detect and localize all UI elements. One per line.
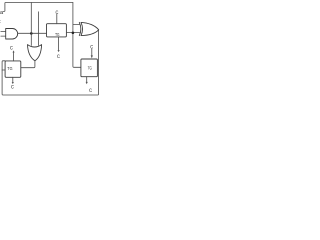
wire vertical x=38.2 to OR U2 right input	[37, 12, 39, 46]
wire vertical x=31.3 from top rail through junction J1 to OR U2 left input	[30, 3, 32, 46]
svg-text:c: c	[57, 54, 60, 60]
wire right rail down, bottom rail across, left rail up to TG2 top corner	[2, 30, 99, 95]
svg-text:c: c	[0, 19, 2, 25]
wire AND U1 lower input	[1, 35, 6, 37]
node J2 junction dot on TG1 output	[72, 32, 75, 35]
op-amp U1 (AND gate)	[6, 29, 18, 40]
wire TG2 bottom clock stub	[12, 77, 14, 82]
inverter mark on TG1 bottom clock	[58, 50, 60, 52]
wire TG1 bottom clock stub	[58, 37, 60, 50]
wire TG3 bottom clock stub	[86, 77, 88, 82]
wire AND U1 upper input	[1, 31, 6, 33]
node c label below TG1	[57, 54, 60, 60]
node c label below TG2	[11, 85, 14, 91]
svg-text:TG: TG	[88, 66, 92, 72]
wire top feedback rail from node a up and across	[3, 3, 73, 12]
inverter mark on TG2 bottom clock	[12, 82, 14, 84]
svg-text:TG: TG	[7, 66, 12, 72]
node J1 junction dot on AND output	[30, 32, 33, 35]
wire branch into XOR U3 upper input	[73, 23, 80, 25]
svg-text:a: a	[0, 10, 4, 16]
xor-gate U3 (pointing right)	[79, 22, 98, 35]
wire right vertical x=72.9 from top rail down to TG3 input	[73, 3, 81, 68]
inverter mark on TG2 top clock	[13, 50, 15, 52]
or-gate U2 (pointing down)	[28, 45, 42, 61]
wire AND U1 output to TG1 input	[18, 32, 47, 34]
transmission gate TG2 (bottom left box)	[5, 61, 21, 77]
node c label above TG2	[10, 45, 13, 51]
svg-text:c: c	[89, 88, 92, 94]
inverter mark on TG3 top clock	[91, 55, 93, 58]
transmission gate TG1 (top middle box)	[47, 24, 67, 37]
wire TG1 top clock stub	[56, 14, 58, 24]
transmission gate TG3 (bottom right box)	[81, 59, 98, 77]
node c label below TG3	[89, 88, 92, 94]
svg-text:c: c	[11, 85, 14, 91]
node a (input label, left edge)	[0, 10, 4, 16]
inverter mark on TG3 bottom clock	[86, 82, 88, 84]
svg-text:c: c	[10, 45, 13, 51]
node c (input label, left edge)	[0, 19, 2, 25]
wire TG3 top clock stub	[91, 49, 93, 55]
wire TG2 top clock stub	[13, 53, 15, 61]
wire TG1 output to XOR U3 lower input	[66, 32, 79, 34]
wire OR U2 output down and left into TG2 right side	[21, 61, 35, 68]
wire TG2 left side to left rail	[2, 69, 5, 71]
node c label above TG1	[55, 10, 58, 16]
node c label above TG3	[90, 44, 93, 50]
